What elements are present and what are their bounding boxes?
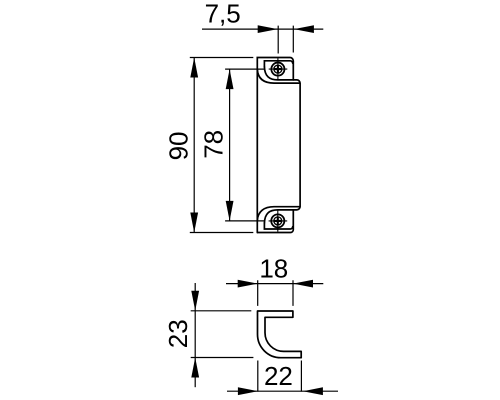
bottom screw cross slot — [274, 217, 282, 225]
front view outer contour (left edge, top edge, top tab right edge) — [257, 58, 300, 233]
bottom mounting plate left and bottom inner edge — [264, 223, 292, 229]
dimension 78 extension lines — [225, 69, 265, 221]
svg-text:23: 23 — [163, 319, 193, 348]
dimension 22 arrowheads — [238, 387, 258, 395]
dimension 18 extension lines — [258, 280, 293, 306]
dimension 7,5 extension lines — [278, 26, 293, 54]
dimension 22 line — [227, 390, 338, 392]
top screw cross slot — [274, 65, 283, 225]
dimension 90 extension lines — [190, 58, 254, 233]
bottom screw head circles — [271, 214, 284, 227]
svg-text:22: 22 — [264, 361, 293, 391]
dimension 23 arrowheads — [191, 291, 199, 311]
front view bottom edge and bottom tab right edge — [257, 210, 293, 233]
dimension 23 extension lines — [191, 311, 254, 358]
svg-text:7,5: 7,5 — [205, 0, 241, 28]
dimension 23 line — [194, 283, 196, 387]
svg-text:18: 18 — [259, 253, 288, 283]
dimension 18 arrowheads — [191, 280, 323, 395]
dimension 7,5 arrowheads — [190, 25, 314, 232]
section view J-profile outline — [257, 311, 301, 358]
plate fold lines and body right edge (continuous) — [264, 67, 300, 223]
dimension 90 line — [193, 58, 195, 233]
svg-text:78: 78 — [198, 130, 228, 159]
dimension 78 line — [229, 69, 231, 221]
top screw centerlines — [269, 58, 288, 231]
dimension 18 line — [191, 280, 338, 391]
bottom tab outer fold curve — [257, 207, 300, 221]
top tab outer fold curve — [257, 70, 300, 84]
top screw head circles — [271, 63, 284, 228]
dimension 22 extension lines — [258, 361, 302, 392]
dimension 90 arrowheads — [190, 58, 198, 78]
top mounting plate left and top inner edge — [264, 61, 292, 67]
svg-text:90: 90 — [163, 131, 193, 160]
bottom screw centerlines — [269, 210, 288, 232]
dimension 78 arrowheads — [226, 69, 234, 89]
dimension 7,5 line — [190, 26, 323, 233]
